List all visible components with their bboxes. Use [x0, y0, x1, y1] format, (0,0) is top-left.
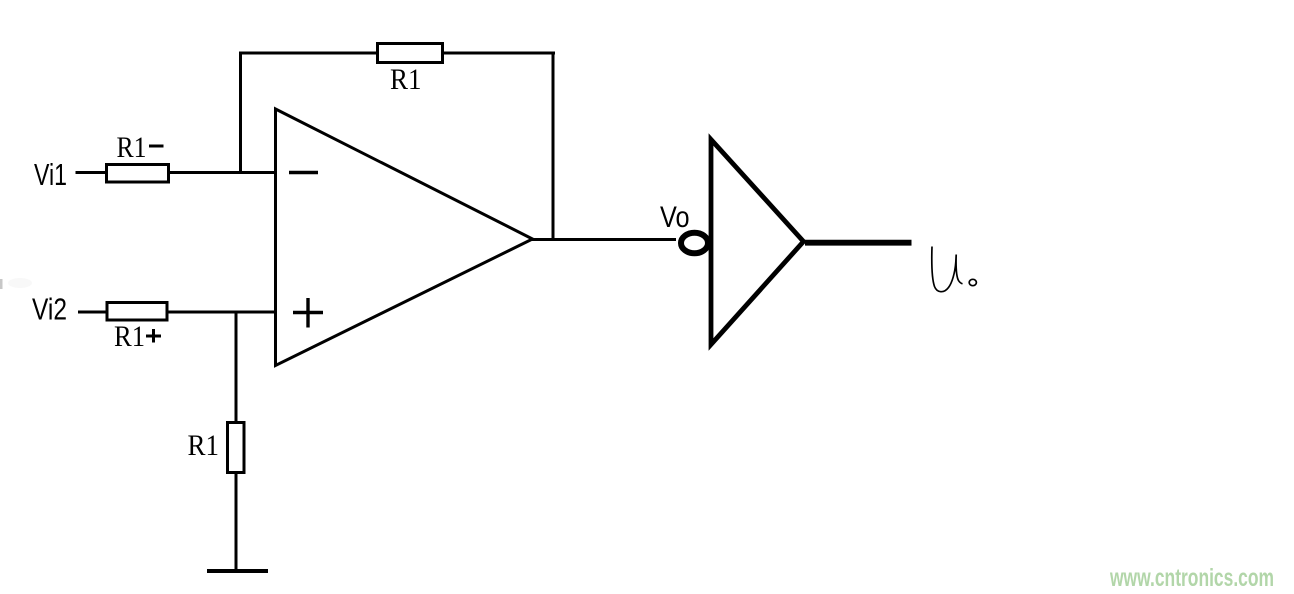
- resistor R1- (series, inverting input): [107, 165, 169, 183]
- buffer triangle (hand-drawn stage): [711, 140, 804, 345]
- node Uo handwritten label: [932, 247, 977, 292]
- node Vo terminal circle: [681, 233, 708, 254]
- svg-text:R1: R1: [117, 131, 147, 164]
- resistor R1 (to ground, vertical): [228, 423, 245, 473]
- label R1-: [117, 131, 164, 164]
- resistor R1+ (series, non-inverting input): [107, 303, 167, 321]
- svg-text:R1: R1: [188, 429, 220, 462]
- op-amp non-inverting input plus sign: [293, 298, 323, 328]
- resistor R1 (feedback, top): [378, 44, 443, 63]
- wire feedback loop (left vertical riser): [239, 52, 242, 173]
- op-amp U1 triangle: [276, 109, 533, 366]
- wire resistor to ground: [235, 471, 238, 571]
- ground: [207, 569, 268, 573]
- wire Vi2 to non-inverting input: [78, 311, 276, 314]
- svg-text:Vi1: Vi1: [34, 157, 67, 192]
- wire buffer output (thick): [805, 240, 912, 246]
- svg-text:Vi2: Vi2: [32, 292, 67, 327]
- wire junction to ground resistor: [235, 312, 238, 424]
- wire Vi1 to inverting input: [76, 171, 277, 174]
- label R1+: [114, 320, 161, 353]
- wire feedback right vertical drop: [552, 52, 555, 241]
- wire feedback top horizontal: [239, 52, 555, 55]
- svg-text:R1: R1: [390, 63, 422, 96]
- op-amp inverting input minus sign: [289, 171, 318, 174]
- svg-text:www.cntronics.com: www.cntronics.com: [1109, 564, 1274, 592]
- wire op-amp output: [531, 238, 676, 241]
- faint scan artifact left edge: [0, 279, 3, 289]
- svg-text:R1: R1: [114, 320, 145, 353]
- svg-text:Vo: Vo: [660, 201, 690, 234]
